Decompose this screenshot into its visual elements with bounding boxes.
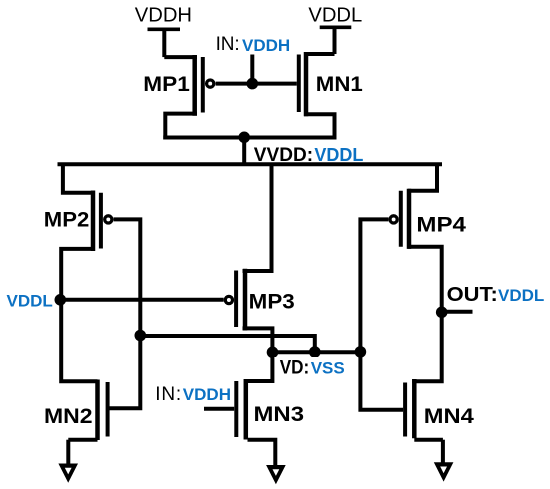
svg-text:MN4: MN4 <box>424 403 474 428</box>
net VVDD rail with MP2/MP4 source leads <box>58 145 443 193</box>
wire: VDDL node to MP3 gate <box>60 298 223 302</box>
ground (below MN2) <box>58 464 78 483</box>
node dot1 VD (MP3/MN3 drains) <box>267 347 279 359</box>
svg-text:VD:: VD: <box>280 358 310 379</box>
svg-text:VDDL: VDDL <box>498 286 544 305</box>
svg-text:IN:: IN: <box>155 384 181 405</box>
svg-text:MP3: MP3 <box>249 289 295 314</box>
node dot on V2 (x140.3) <box>135 330 147 342</box>
transistor MP1 <box>143 55 213 140</box>
node dot2 VD (from H2) <box>309 346 321 358</box>
ground (below MN3) <box>266 465 286 484</box>
svg-text:MN1: MN1 <box>316 71 363 96</box>
label IN:VDDH (bottom, at MN3 gate) <box>155 384 231 405</box>
transistor MN1 <box>299 52 363 140</box>
wire VD net <box>270 350 360 354</box>
transistor MP4 <box>390 189 466 382</box>
svg-text:VDDL: VDDL <box>314 145 363 165</box>
transistor MP3 <box>225 164 294 352</box>
svg-text:VSS: VSS <box>311 359 345 378</box>
svg-text:VDDH: VDDH <box>242 36 290 55</box>
transistor MN2 <box>44 380 108 466</box>
svg-text:IN:: IN: <box>216 34 240 55</box>
svg-text:VDDL: VDDL <box>7 291 53 310</box>
svg-text:VDDL: VDDL <box>308 5 362 27</box>
node IN (top) with stub and dot <box>216 34 291 89</box>
wire H2: from V2 dot right then down to VD <box>140 336 314 352</box>
wire: MP4 gate to V3 vertical down to MN4 gate <box>360 219 403 409</box>
wire: W1 drain join MP1-MN1 <box>163 136 336 140</box>
svg-text:MP2: MP2 <box>44 207 90 232</box>
node OUT dot and stub <box>436 284 544 318</box>
svg-text:MN2: MN2 <box>44 403 93 428</box>
transistor MP2 <box>44 191 112 382</box>
svg-text:MP1: MP1 <box>143 71 190 96</box>
svg-text:VDDH: VDDH <box>183 385 231 404</box>
ground (below MN4) <box>434 462 454 481</box>
svg-text:MN3: MN3 <box>254 401 305 426</box>
transistor MN4 <box>405 379 474 464</box>
node dot on W1 with stub to VVDD rail <box>238 132 250 165</box>
svg-text:VDDH: VDDH <box>135 5 192 27</box>
node dot3 VD (to MP4/MN4 gates) <box>355 346 367 358</box>
transistor MN3 <box>204 352 304 467</box>
wire: gate wire MP1-MN1 <box>216 82 297 86</box>
svg-text:VVDD:: VVDD: <box>254 145 313 166</box>
power VDDL (top) <box>308 5 362 54</box>
label VD:VSS with white background <box>274 357 349 379</box>
node VDDL (left) dot and label <box>7 291 67 310</box>
power VDDH <box>135 5 192 57</box>
wire: MP2 gate to V2 vertical down to MN2 gate <box>108 219 141 408</box>
svg-text:OUT:: OUT: <box>447 284 498 306</box>
svg-text:MP4: MP4 <box>416 212 466 237</box>
